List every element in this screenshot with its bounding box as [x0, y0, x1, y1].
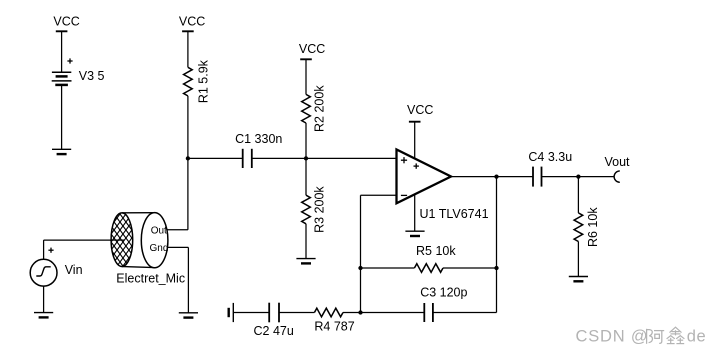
- svg-text:U1 TLV6741: U1 TLV6741: [420, 207, 489, 221]
- svg-text:Electret_Mic: Electret_Mic: [116, 272, 185, 286]
- svg-text:R3 200k: R3 200k: [313, 186, 327, 233]
- svg-text:C4 3.3u: C4 3.3u: [528, 150, 572, 164]
- svg-text:Vin: Vin: [65, 263, 83, 277]
- svg-text:R6 10k: R6 10k: [586, 207, 600, 247]
- svg-text:VCC: VCC: [179, 14, 205, 28]
- svg-text:de: de: [687, 327, 706, 345]
- svg-text:CSDN @: CSDN @: [576, 327, 649, 345]
- svg-text:VCC: VCC: [407, 103, 433, 117]
- svg-text:V3 5: V3 5: [79, 69, 105, 83]
- svg-text:Vout: Vout: [605, 155, 631, 169]
- svg-text:C1 330n: C1 330n: [235, 132, 282, 146]
- svg-text:R5 10k: R5 10k: [416, 244, 456, 258]
- svg-text:Gnd: Gnd: [150, 243, 169, 254]
- svg-text:VCC: VCC: [299, 42, 325, 56]
- svg-text:VCC: VCC: [53, 14, 79, 28]
- svg-text:C3 120p: C3 120p: [420, 286, 467, 300]
- svg-text:Out: Out: [151, 225, 167, 236]
- svg-text:C2 47u: C2 47u: [254, 324, 294, 338]
- svg-text:R1 5.9k: R1 5.9k: [196, 59, 210, 103]
- svg-text:R2 200k: R2 200k: [313, 85, 327, 132]
- svg-text:R4 787: R4 787: [314, 320, 354, 334]
